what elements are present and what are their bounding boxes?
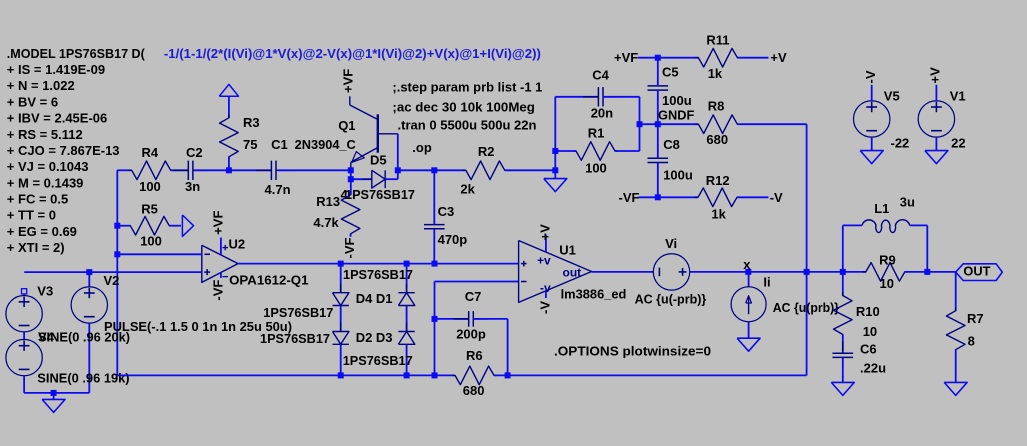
wire C1 to Q1 emitter node bbox=[278, 169, 351, 171]
wire C8 bottom stem bbox=[657, 163, 659, 198]
svg-text:2N3904_C: 2N3904_C bbox=[295, 137, 357, 152]
svg-text:;.step param prb list -1 1: ;.step param prb list -1 1 bbox=[392, 80, 542, 95]
wire R11 right lead bbox=[737, 57, 768, 59]
svg-text:R12: R12 bbox=[706, 173, 730, 188]
wire V2 bottom stem bbox=[88, 323, 90, 393]
resistor R11 bbox=[695, 48, 740, 67]
wire D5 left lead bbox=[351, 178, 372, 180]
svg-text:470p: 470p bbox=[438, 232, 468, 247]
svg-text:1PS76SB17: 1PS76SB17 bbox=[260, 331, 330, 346]
wire R2 right lead bbox=[505, 169, 556, 171]
node C3 top junction bbox=[431, 167, 437, 173]
svg-text:+VF: +VF bbox=[614, 50, 638, 65]
ground under Ii bbox=[737, 338, 760, 351]
wire U1 -in feedback row bbox=[435, 281, 519, 283]
svg-text:10: 10 bbox=[880, 276, 894, 291]
svg-text:+V: +V bbox=[770, 50, 787, 65]
wire D1 top stem bbox=[406, 264, 408, 293]
svg-text:+ VJ = 0.1043: + VJ = 0.1043 bbox=[7, 159, 89, 174]
diode D3 bbox=[398, 332, 414, 345]
wire R9 right to OUT bbox=[904, 271, 955, 273]
node x junction bbox=[745, 269, 751, 275]
current source Ii bbox=[748, 272, 750, 287]
wire U2 -in row bbox=[117, 253, 202, 255]
svg-text:8: 8 bbox=[968, 334, 975, 349]
svg-text:R5: R5 bbox=[141, 201, 158, 216]
voltage source V3 bbox=[6, 296, 42, 332]
resistor R10 bbox=[834, 293, 853, 338]
wire V3 to V4 stem bbox=[23, 332, 25, 340]
node L1/R9 left junction bbox=[840, 269, 846, 275]
svg-text:+ FC = 0.5: + FC = 0.5 bbox=[7, 191, 68, 206]
svg-text:22: 22 bbox=[951, 135, 965, 150]
diode D4 bbox=[333, 293, 349, 306]
node -VF junction bbox=[655, 194, 661, 200]
svg-text:SINE(0 .96 19k): SINE(0 .96 19k) bbox=[37, 371, 129, 386]
ground under V1 bbox=[925, 151, 948, 164]
node C7 left junction bbox=[432, 316, 438, 322]
node out row C3 junction bbox=[432, 261, 438, 267]
svg-text:R10: R10 bbox=[856, 304, 880, 319]
port flag above R3 bbox=[219, 84, 238, 96]
svg-text:out: out bbox=[563, 265, 582, 279]
svg-text:+ CJO = 7.867E-13: + CJO = 7.867E-13 bbox=[7, 143, 120, 158]
svg-text:R4: R4 bbox=[142, 145, 159, 160]
wire left column vertical bbox=[116, 170, 118, 375]
wire C4 row left bbox=[555, 96, 598, 98]
svg-text:-V: -V bbox=[537, 301, 552, 314]
node sources ground junction bbox=[51, 390, 57, 396]
svg-text:+VF: +VF bbox=[211, 211, 226, 235]
svg-text:C3: C3 bbox=[438, 204, 455, 219]
svg-text:1PS76SB17: 1PS76SB17 bbox=[345, 187, 415, 202]
svg-text:100u: 100u bbox=[663, 167, 693, 182]
diode D5 bbox=[372, 170, 385, 188]
svg-text:200p: 200p bbox=[456, 327, 486, 342]
svg-text:V1: V1 bbox=[950, 88, 966, 103]
svg-text:4.7k: 4.7k bbox=[313, 215, 339, 230]
resistor R3 bbox=[220, 115, 239, 160]
svg-text:V2: V2 bbox=[104, 273, 120, 288]
svg-text:;ac dec 30 10k 100Meg: ;ac dec 30 10k 100Meg bbox=[392, 99, 535, 114]
node rail R6 right junction bbox=[505, 372, 511, 378]
svg-text:D2 D3: D2 D3 bbox=[356, 330, 393, 345]
svg-text:C6: C6 bbox=[860, 342, 877, 357]
wire ground stub bbox=[53, 393, 55, 400]
svg-text:+ RS = 5.112: + RS = 5.112 bbox=[7, 127, 83, 142]
svg-text:C7: C7 bbox=[465, 289, 482, 304]
capacitor C5 bbox=[648, 85, 669, 87]
wire +VF to C5 junction bbox=[638, 57, 698, 59]
svg-text:Q1: Q1 bbox=[338, 118, 355, 133]
svg-text:20n: 20n bbox=[591, 105, 613, 120]
wire U1 -V stem bbox=[545, 291, 547, 298]
svg-text:1PS76SB17: 1PS76SB17 bbox=[343, 267, 413, 282]
wire R10 top stem bbox=[842, 272, 844, 296]
wire C5 bottom stem bbox=[657, 90, 659, 124]
svg-text:U1: U1 bbox=[559, 243, 576, 258]
ground under R1 column bbox=[554, 170, 556, 178]
svg-text:+ EG = 0.69: + EG = 0.69 bbox=[7, 224, 77, 239]
svg-text:R8: R8 bbox=[708, 98, 725, 113]
ground under C6 bbox=[831, 382, 854, 395]
wire C4 right vertical bbox=[639, 97, 641, 124]
wire GNDF row bbox=[640, 123, 699, 125]
svg-text:.tran 0 5500u 500u 22n: .tran 0 5500u 500u 22n bbox=[398, 117, 537, 132]
resistor R2 bbox=[463, 161, 508, 180]
svg-text:-V: -V bbox=[770, 190, 783, 205]
svg-text:C4: C4 bbox=[592, 68, 609, 83]
node R3/main row junction bbox=[226, 167, 232, 173]
wire bottom rail left bbox=[117, 374, 455, 376]
svg-text:C1: C1 bbox=[271, 137, 288, 152]
wire C2 to C1 bbox=[195, 169, 272, 171]
wire D5 right lead bbox=[385, 178, 398, 180]
svg-text:C2: C2 bbox=[186, 145, 203, 160]
capacitor C7 bbox=[468, 311, 470, 327]
wire D5 up to main row bbox=[397, 170, 399, 179]
wire Q1 base down to main row bbox=[397, 134, 399, 171]
resistor R8 bbox=[695, 115, 740, 134]
node long vertical junction bbox=[804, 269, 810, 275]
svg-text:AC {u(prb)}: AC {u(prb)} bbox=[773, 300, 839, 315]
voltage source V4 bbox=[6, 339, 42, 375]
svg-text:-VF: -VF bbox=[619, 190, 640, 205]
wire V1 bottom stem bbox=[935, 137, 937, 151]
svg-text:R7: R7 bbox=[967, 311, 984, 326]
svg-text:3u: 3u bbox=[900, 194, 915, 209]
wire main row to R2 bbox=[398, 169, 466, 171]
svg-text:-VF: -VF bbox=[342, 238, 357, 259]
wire R3 top stem bbox=[228, 96, 230, 118]
svg-text:R13: R13 bbox=[316, 194, 340, 209]
wire C7 row left bbox=[435, 318, 469, 320]
svg-text:+V: +V bbox=[928, 67, 943, 84]
svg-text:3n: 3n bbox=[185, 179, 200, 194]
svg-text:1k: 1k bbox=[708, 66, 723, 81]
open node square above V3 bbox=[22, 289, 27, 294]
svg-text:lm3886_ed: lm3886_ed bbox=[561, 287, 627, 302]
wire C3 top stem bbox=[433, 170, 435, 224]
svg-text:1PS76SB17: 1PS76SB17 bbox=[343, 353, 413, 368]
wire R13 top stem bbox=[350, 179, 352, 195]
svg-text:R6: R6 bbox=[466, 348, 483, 363]
wire C7 right vertical bbox=[507, 319, 509, 376]
node Q1 emitter junction bbox=[348, 167, 354, 173]
wire -VF row bbox=[639, 196, 699, 198]
ground under R7 bbox=[944, 382, 967, 395]
svg-text:.MODEL 1PS76SB17 D(: .MODEL 1PS76SB17 D( bbox=[7, 46, 146, 61]
wire C8 top stem bbox=[657, 124, 659, 158]
voltage source V5 bbox=[854, 101, 890, 137]
svg-text:100: 100 bbox=[140, 233, 162, 248]
capacitor C6 bbox=[833, 352, 854, 354]
svg-text:Vi: Vi bbox=[665, 236, 677, 251]
port flag OUT bbox=[956, 264, 1003, 281]
inductor L1 bbox=[862, 220, 910, 233]
node +VF junction bbox=[655, 55, 661, 61]
wire C7 row right bbox=[473, 318, 507, 320]
svg-text:4.7n: 4.7n bbox=[265, 182, 291, 197]
svg-text:.op: .op bbox=[412, 140, 432, 155]
resistor R4 bbox=[129, 161, 174, 180]
transistor Q1 2N3904 bbox=[377, 114, 379, 152]
wire feedback column bbox=[434, 282, 436, 376]
wire R1 right vertical bbox=[639, 124, 641, 151]
resistor R6 bbox=[452, 366, 497, 385]
node -in feedback junction bbox=[114, 251, 120, 257]
wire R7 top stem bbox=[955, 272, 957, 311]
svg-text:R3: R3 bbox=[243, 115, 260, 130]
wire L1 right lead bbox=[910, 224, 928, 226]
svg-text:R1: R1 bbox=[588, 125, 605, 140]
wire R7 bottom stem bbox=[955, 350, 957, 383]
wire R13 bottom stem bbox=[350, 234, 352, 237]
node R5 left junction bbox=[114, 223, 120, 229]
wire V2 top stem bbox=[88, 272, 90, 287]
wire C4 row right bbox=[603, 96, 640, 98]
node D5 left junction bbox=[348, 176, 354, 182]
ground under V5 bbox=[860, 151, 883, 164]
svg-text:-V: -V bbox=[863, 70, 878, 83]
wire D4 top stem bbox=[340, 264, 342, 293]
wire V1 top stem bbox=[935, 85, 937, 101]
svg-text:C8: C8 bbox=[663, 137, 680, 152]
wire long vertical feedback bbox=[806, 124, 808, 375]
svg-text:D4 D1: D4 D1 bbox=[356, 291, 393, 306]
svg-text:.22u: .22u bbox=[860, 360, 886, 375]
capacitor C4 bbox=[597, 87, 599, 106]
svg-text:1PS76SB17: 1PS76SB17 bbox=[263, 305, 333, 320]
wire R10 bottom stem bbox=[842, 335, 844, 352]
svg-text:+v: +v bbox=[537, 254, 551, 268]
voltage source Vi bbox=[653, 254, 689, 290]
wire U1 out to Vi bbox=[592, 271, 654, 273]
wire D2 bottom stem bbox=[340, 344, 342, 375]
wire R4 to C2 bbox=[171, 169, 189, 171]
node rail D3 junction bbox=[404, 372, 410, 378]
wire main row R4 lead bbox=[117, 169, 131, 171]
svg-text:100: 100 bbox=[139, 179, 161, 194]
svg-text:+V: +V bbox=[537, 224, 552, 241]
wire R1 left lead bbox=[555, 150, 576, 152]
wire D3 bottom stem bbox=[406, 344, 408, 375]
svg-text:R9: R9 bbox=[879, 253, 896, 268]
resistor R13 bbox=[341, 192, 360, 237]
wire V5 bottom stem bbox=[871, 137, 873, 151]
ground under V2/V4 bbox=[42, 399, 65, 412]
wire Vi right to node x bbox=[690, 271, 807, 273]
wire L1 right vertical bbox=[926, 225, 928, 272]
resistor R5 bbox=[127, 216, 172, 235]
svg-text:-1/(1-1/(2*(I(Vi)@1*V(x)@2-V(x: -1/(1-1/(2*(I(Vi)@1*V(x)@2-V(x)@1*I(Vi)@… bbox=[164, 46, 541, 61]
svg-text:OUT: OUT bbox=[963, 264, 990, 279]
wire emitter node to D5 row bbox=[350, 170, 352, 179]
wire C3 bottom stem bbox=[433, 229, 435, 264]
node R1 left junction bbox=[552, 148, 558, 154]
wire U2 output row bbox=[238, 263, 519, 265]
svg-text:Ii: Ii bbox=[763, 275, 770, 290]
svg-text:100: 100 bbox=[585, 160, 607, 175]
diode D2 bbox=[333, 332, 349, 345]
svg-text:-VF: -VF bbox=[211, 280, 226, 301]
resistor R7 bbox=[946, 308, 965, 353]
capacitor C2 bbox=[187, 161, 189, 180]
node D4 column top junction bbox=[338, 261, 344, 267]
wire R3 bottom stem bbox=[228, 157, 230, 171]
wire U2 +in row bbox=[24, 271, 202, 273]
svg-text:+ IS = 1.419E-09: + IS = 1.419E-09 bbox=[7, 62, 105, 77]
svg-text:D5: D5 bbox=[370, 152, 387, 167]
op-amp U1 lm3886 bbox=[519, 241, 592, 303]
svg-text:+ N = 1.022: + N = 1.022 bbox=[7, 78, 75, 93]
svg-text:R11: R11 bbox=[706, 32, 729, 47]
svg-text:1k: 1k bbox=[711, 207, 726, 222]
node GNDF left junction bbox=[637, 121, 643, 127]
svg-text:L1: L1 bbox=[874, 201, 889, 216]
node R2/ground junction bbox=[552, 167, 558, 173]
resistor R12 bbox=[695, 188, 740, 207]
node rail D2 junction bbox=[338, 372, 344, 378]
wire C5 top stem bbox=[657, 58, 659, 86]
node V2 top junction bbox=[86, 269, 92, 275]
node D1 column top junction bbox=[404, 261, 410, 267]
capacitor C8 bbox=[648, 157, 669, 159]
svg-text:+ M = 0.1439: + M = 0.1439 bbox=[7, 175, 84, 190]
svg-text:+VF: +VF bbox=[340, 69, 355, 93]
svg-text:+ BV = 6: + BV = 6 bbox=[7, 94, 58, 109]
svg-text:100u: 100u bbox=[662, 93, 692, 108]
svg-text:V3: V3 bbox=[37, 284, 53, 299]
svg-text:U2: U2 bbox=[229, 236, 246, 251]
wire V3 top stub bbox=[23, 294, 25, 296]
svg-text:+ IBV = 2.45E-06: + IBV = 2.45E-06 bbox=[7, 111, 107, 126]
svg-text:2k: 2k bbox=[460, 181, 475, 196]
port flag right of R5 bbox=[182, 215, 193, 236]
wire Ii bottom stem bbox=[748, 322, 750, 339]
wire L1 left lead bbox=[843, 224, 862, 226]
resistor R1 bbox=[573, 142, 618, 161]
svg-text:V5: V5 bbox=[884, 88, 900, 103]
voltage source V2 bbox=[71, 287, 107, 323]
svg-text:-22: -22 bbox=[891, 135, 910, 150]
wire U2 -VF stem bbox=[220, 273, 222, 279]
svg-text:+ XTI = 2): + XTI = 2) bbox=[7, 240, 65, 255]
capacitor C3 bbox=[424, 224, 445, 226]
wire bottom rail right bbox=[494, 374, 807, 376]
svg-text:10: 10 bbox=[863, 324, 877, 339]
svg-text:.OPTIONS plotwinsize=0: .OPTIONS plotwinsize=0 bbox=[554, 344, 711, 359]
wire R12 right lead bbox=[737, 196, 769, 198]
wire R5 right lead bbox=[169, 225, 181, 227]
op-amp U2 bbox=[202, 245, 238, 282]
wire U1 +V stem bbox=[545, 235, 547, 253]
wire V4 bottom horizontal bbox=[24, 392, 53, 394]
diode D1 bbox=[398, 293, 414, 306]
wire R1 right lead bbox=[615, 150, 640, 152]
wire L1 left vertical bbox=[842, 225, 844, 272]
svg-text:75: 75 bbox=[243, 137, 257, 152]
wire C4 left vertical bbox=[554, 97, 556, 171]
wire V5 top stem bbox=[871, 85, 873, 101]
wire D1-D3 stem bbox=[406, 306, 408, 332]
svg-text:680: 680 bbox=[706, 132, 728, 147]
node GNDF C5 junction bbox=[655, 121, 661, 127]
svg-text:+ TT = 0: + TT = 0 bbox=[7, 208, 56, 223]
wire U2 +VF stem bbox=[220, 238, 222, 255]
node rail feedback junction bbox=[432, 372, 438, 378]
wire V4 bottom stem bbox=[23, 376, 25, 393]
wire D4-D2 stem bbox=[340, 306, 342, 332]
svg-text:AC {u(-prb)}: AC {u(-prb)} bbox=[635, 292, 707, 307]
wire R8 right lead to corner bbox=[737, 123, 806, 125]
node Q1 base junction bbox=[395, 167, 401, 173]
svg-text:GNDF: GNDF bbox=[658, 108, 694, 123]
wire node x to L1 node bbox=[807, 271, 867, 273]
svg-text:OPA1612-Q1: OPA1612-Q1 bbox=[229, 273, 308, 288]
svg-text:C5: C5 bbox=[662, 65, 679, 80]
wire C6 bottom stem bbox=[842, 358, 844, 383]
wire V2 bottom horizontal bbox=[54, 392, 90, 394]
wire R5 left lead bbox=[117, 225, 130, 227]
resistor R9 bbox=[863, 263, 908, 282]
node R9 right junction bbox=[924, 269, 930, 275]
svg-text:680: 680 bbox=[463, 383, 485, 398]
svg-text:R2: R2 bbox=[478, 144, 495, 159]
voltage source V1 bbox=[918, 101, 954, 137]
capacitor C1 bbox=[270, 161, 272, 180]
